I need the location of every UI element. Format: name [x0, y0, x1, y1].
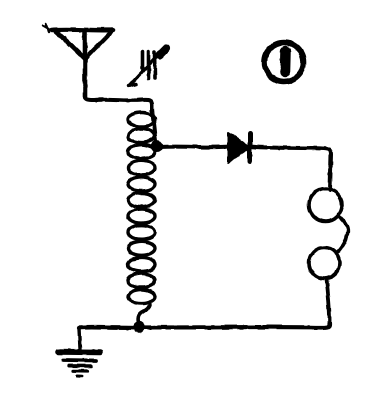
coil L1	[128, 104, 156, 304]
headphones	[309, 189, 348, 279]
wire headphones to bottom corner	[327, 279, 330, 324]
node bottom junction	[133, 321, 145, 333]
signal arrow	[129, 49, 166, 87]
wire coil bottom to bottom rail	[138, 302, 150, 326]
node tap junction	[151, 140, 163, 152]
figure marker circled 1	[265, 43, 304, 82]
diode D1	[228, 133, 250, 163]
wire antenna to coil	[85, 97, 152, 111]
antenna	[43, 24, 113, 97]
wire tap to diode	[160, 145, 226, 150]
wire diode to right corner	[253, 147, 331, 190]
bottom rail wire	[79, 323, 330, 328]
ground	[58, 328, 100, 376]
